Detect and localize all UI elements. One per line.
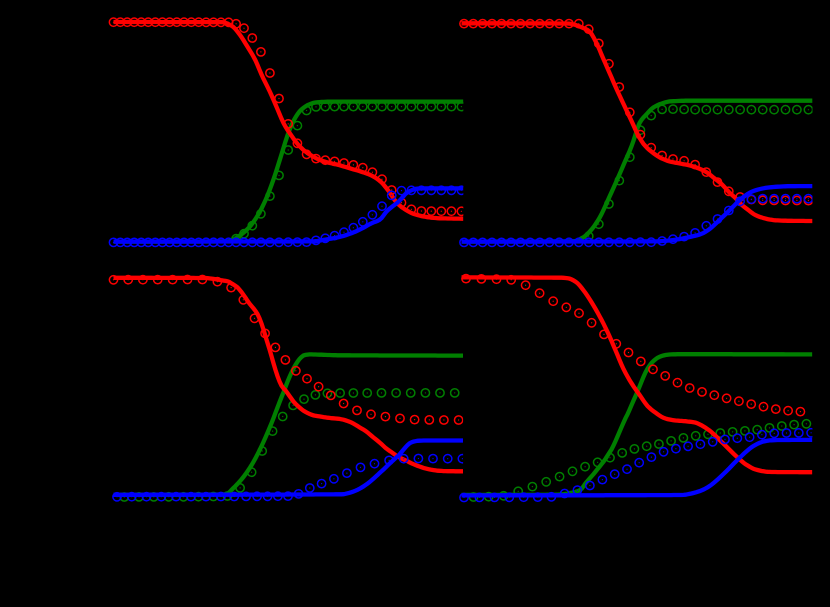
BR green data markers xyxy=(469,420,810,502)
BR red fit line xyxy=(462,277,813,472)
BL green fit line xyxy=(114,354,464,494)
TL green data markers xyxy=(232,102,466,242)
BL blue fit line xyxy=(114,441,464,495)
BR green fit line xyxy=(462,354,813,495)
TL blue data markers xyxy=(109,186,465,246)
TL green fit line xyxy=(114,102,464,242)
BL red fit line xyxy=(114,278,464,472)
BR blue fit line xyxy=(462,440,813,496)
BL green data markers xyxy=(120,389,459,501)
BL blue data markers xyxy=(113,454,467,501)
TR green fit line xyxy=(462,101,813,242)
TR red data markers xyxy=(460,19,813,204)
TR blue data markers xyxy=(460,194,813,246)
TR green data markers xyxy=(585,105,813,240)
BR blue data markers xyxy=(460,429,815,502)
TR red fit line xyxy=(462,23,813,221)
TR blue fit line xyxy=(462,186,813,242)
TL red data markers xyxy=(109,18,465,215)
BR red data markers xyxy=(462,274,805,415)
TL red fit line xyxy=(114,22,464,219)
TL blue fit line xyxy=(114,188,464,241)
BL red data markers xyxy=(109,275,462,424)
